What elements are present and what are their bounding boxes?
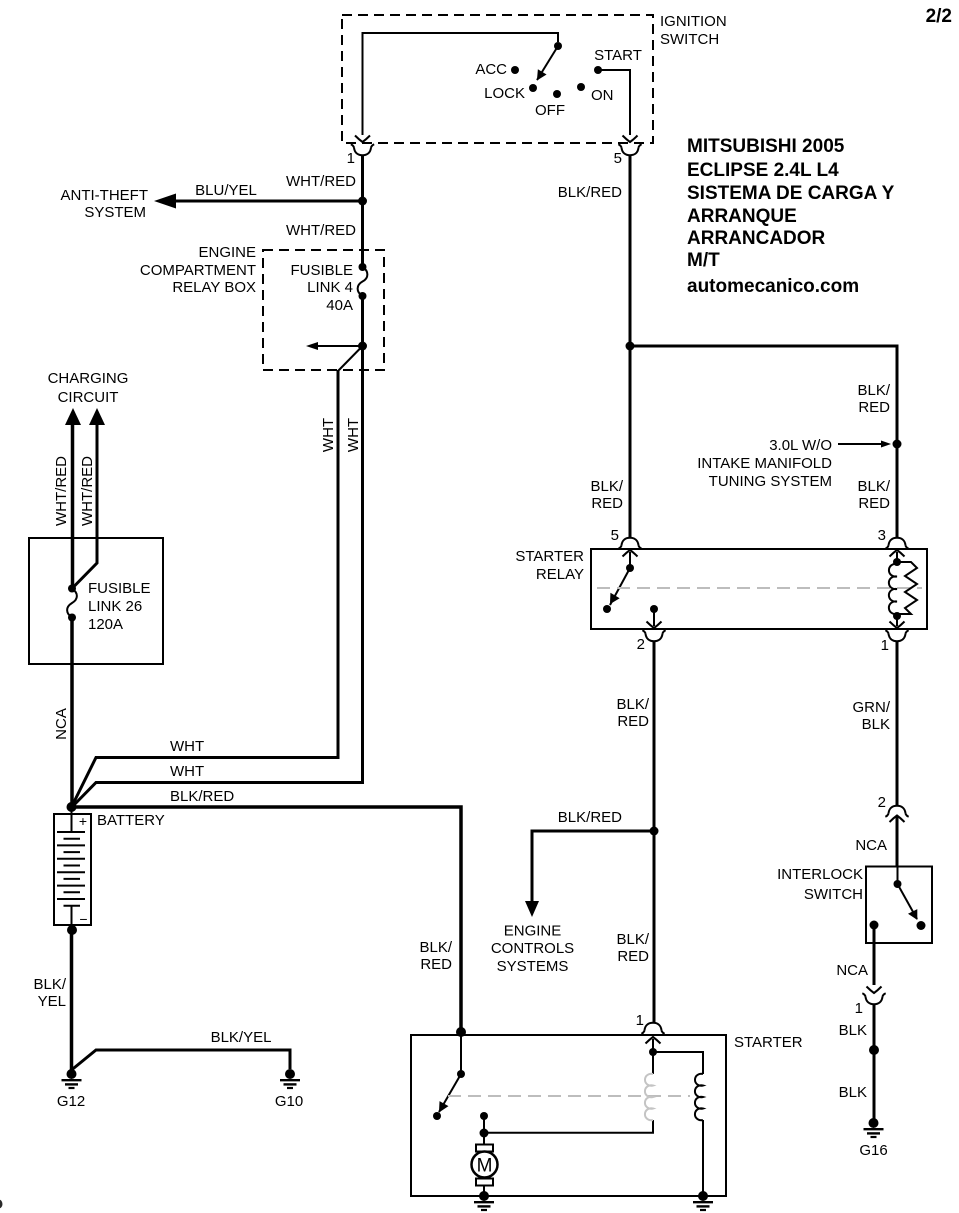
svg-text:ENGINE: ENGINE	[504, 923, 562, 940]
svg-text:OFF: OFF	[535, 102, 565, 119]
svg-text:INTAKE MANIFOLD: INTAKE MANIFOLD	[697, 455, 832, 472]
svg-text:WHT: WHT	[345, 418, 362, 452]
wire GRN/BLK pin1 down	[896, 642, 899, 806]
motor M	[472, 1145, 498, 1197]
svg-text:40A: 40A	[326, 297, 353, 314]
svg-text:2: 2	[878, 794, 886, 811]
pin 1 starter terminal arrow	[646, 1037, 661, 1052]
svg-text:ARRANQUE: ARRANQUE	[687, 206, 797, 227]
arrow 3.0L W/O	[838, 441, 891, 448]
svg-text:G12: G12	[57, 1093, 85, 1110]
svg-text:FUSIBLE: FUSIBLE	[290, 262, 353, 279]
wire START to pin5	[598, 70, 630, 135]
label ENGINE CONTROLS SYSTEMS	[491, 923, 574, 976]
pull-in coil (gray)	[645, 1052, 653, 1120]
svg-text:SYSTEM: SYSTEM	[84, 204, 146, 221]
page artifact bottom left	[0, 1199, 3, 1208]
svg-text:BLU/YEL: BLU/YEL	[195, 182, 257, 199]
svg-text:LINK 26: LINK 26	[88, 598, 142, 615]
svg-text:WHT: WHT	[320, 418, 337, 452]
wire NCA battery feed	[70, 618, 74, 808]
svg-text:BLK/: BLK/	[857, 382, 890, 399]
svg-text:BLK: BLK	[839, 1084, 867, 1101]
wire WHT right vertical	[72, 346, 363, 808]
svg-text:ACC: ACC	[475, 61, 507, 78]
wire NCA to interlock	[896, 816, 899, 867]
label ENGINE COMPARTMENT RELAY BOX	[140, 244, 256, 296]
svg-text:SWITCH: SWITCH	[660, 31, 719, 48]
interlock switch box	[866, 867, 932, 944]
label BLK/ RED feed	[419, 939, 452, 973]
node solenoid junction	[649, 1048, 657, 1056]
node relay box junction	[358, 342, 367, 351]
label BLK/ RED right above relay	[857, 478, 890, 512]
contact ON	[577, 83, 585, 91]
wire NCA below interlock	[873, 925, 876, 985]
pin 3 terminal arrow	[890, 550, 905, 562]
svg-text:BLK/RED: BLK/RED	[558, 809, 622, 826]
label BLK/ RED left above relay	[590, 478, 623, 512]
starter contact	[480, 1112, 488, 1120]
fusible link 4	[290, 250, 367, 314]
interlock switch	[870, 866, 926, 930]
wire branch to right	[630, 346, 897, 539]
svg-text:BLK/RED: BLK/RED	[558, 184, 622, 201]
node 3.0L junction	[893, 440, 902, 449]
svg-text:3: 3	[878, 527, 886, 544]
svg-text:automecanico.com: automecanico.com	[687, 276, 859, 297]
wire BLK/YEL battery to G12	[70, 930, 74, 1070]
wire BLK/RED pin5 down	[629, 156, 632, 346]
relay dashed link	[597, 587, 922, 589]
node engine controls junction	[650, 827, 659, 836]
ground starter motor	[474, 1191, 494, 1210]
arrow charging right	[89, 408, 105, 425]
svg-text:120A: 120A	[88, 616, 123, 633]
contact OFF	[553, 90, 561, 98]
wire pin5 to relay	[629, 346, 632, 539]
label INTERLOCK SWITCH	[777, 866, 863, 903]
svg-text:2: 2	[637, 636, 645, 653]
svg-text:ARRANCADOR: ARRANCADOR	[687, 228, 826, 249]
svg-text:BLK/RED: BLK/RED	[170, 788, 234, 805]
svg-text:RELAY BOX: RELAY BOX	[172, 279, 256, 296]
svg-text:ANTI-THEFT: ANTI-THEFT	[61, 187, 149, 204]
svg-text:WHT/RED: WHT/RED	[286, 173, 356, 190]
pin 1 connector	[347, 136, 375, 168]
svg-text:BLK/YEL: BLK/YEL	[211, 1029, 272, 1046]
label BLK/ YEL	[33, 976, 66, 1010]
svg-text:TUNING SYSTEM: TUNING SYSTEM	[709, 473, 832, 490]
svg-text:BLK/: BLK/	[33, 976, 66, 993]
pin 1 connector	[885, 630, 908, 641]
svg-text:SWITCH: SWITCH	[804, 886, 863, 903]
svg-text:INTERLOCK: INTERLOCK	[777, 866, 863, 883]
svg-text:2/2: 2/2	[926, 6, 952, 27]
pin 2 terminal	[647, 605, 662, 628]
svg-text:BLK/: BLK/	[616, 696, 649, 713]
label STARTER RELAY	[515, 548, 584, 583]
svg-text:1: 1	[881, 637, 889, 654]
svg-text:G10: G10	[275, 1093, 303, 1110]
ground G16	[864, 1118, 884, 1137]
ground G10	[280, 1069, 300, 1088]
svg-text:RED: RED	[617, 948, 649, 965]
svg-text:5: 5	[614, 150, 622, 167]
pin 3 connector	[885, 538, 908, 549]
label IGNITION SWITCH	[660, 13, 727, 48]
pin 1 starter connector	[641, 1023, 664, 1034]
svg-text:BLK/: BLK/	[857, 478, 890, 495]
svg-text:CONTROLS: CONTROLS	[491, 940, 574, 957]
svg-text:BLK/: BLK/	[419, 939, 452, 956]
node pin5 branch	[626, 342, 635, 351]
svg-text:BLK/: BLK/	[590, 478, 623, 495]
wire WHT left vertical	[72, 370, 339, 807]
ignition switch box	[342, 15, 653, 143]
wire BLK/RED pin2 down	[653, 642, 656, 1023]
ignition switch arm pivot	[554, 42, 562, 50]
svg-text:ECLIPSE 2.4L L4: ECLIPSE 2.4L L4	[687, 160, 839, 181]
node splice	[869, 1045, 879, 1055]
contact ACC	[511, 66, 519, 74]
node starter feed	[456, 1027, 466, 1037]
battery	[54, 807, 91, 930]
node anti-theft junction	[358, 197, 367, 206]
svg-text:CHARGING: CHARGING	[48, 370, 129, 387]
pin 5 connector	[614, 136, 642, 168]
svg-text:M/T: M/T	[687, 250, 720, 271]
fusible link 26	[67, 580, 150, 633]
svg-text:WHT/RED: WHT/RED	[53, 456, 70, 526]
wire WHT/RED charging right	[72, 424, 97, 589]
label GRN/ BLK	[853, 699, 891, 733]
svg-text:RED: RED	[617, 713, 649, 730]
pin 5 terminal arrow	[623, 550, 638, 568]
svg-text:ON: ON	[591, 87, 614, 104]
svg-text:SISTEMA DE CARGA Y: SISTEMA DE CARGA Y	[687, 183, 895, 204]
wire BLU/YEL to anti-theft	[172, 200, 363, 203]
starter dashed link	[448, 1095, 690, 1097]
svg-text:YEL: YEL	[38, 993, 66, 1010]
svg-text:1: 1	[855, 1000, 863, 1017]
wire WHT/RED pin1 down	[361, 156, 364, 250]
wire BLK/RED battery to starter	[72, 807, 462, 1032]
starter switch	[433, 1032, 465, 1120]
svg-text:BLK/: BLK/	[616, 931, 649, 948]
ignition switch arm	[537, 46, 558, 80]
svg-text:CIRCUIT: CIRCUIT	[58, 389, 119, 406]
wire BLK to G16	[873, 1050, 876, 1119]
relay switch arm	[610, 568, 630, 605]
svg-text:RED: RED	[591, 495, 623, 512]
connector 1 below interlock	[855, 987, 886, 1018]
svg-text:ENGINE: ENGINE	[198, 244, 256, 261]
svg-text:1: 1	[347, 150, 355, 167]
svg-text:RED: RED	[858, 399, 890, 416]
label 3.0L W/O INTAKE MANIFOLD TUNING SYSTEM	[697, 437, 832, 490]
svg-text:RED: RED	[420, 956, 452, 973]
svg-text:−: −	[79, 911, 87, 927]
svg-text:G16: G16	[859, 1142, 887, 1159]
hold-in coil	[653, 1052, 703, 1196]
fusible link 26 box	[29, 538, 163, 664]
svg-text:NCA: NCA	[836, 962, 868, 979]
svg-text:3.0L W/O: 3.0L W/O	[769, 437, 832, 454]
svg-text:LOCK: LOCK	[484, 85, 525, 102]
svg-text:FUSIBLE: FUSIBLE	[88, 580, 151, 597]
relay coil	[889, 558, 917, 620]
wire to engine controls	[532, 831, 654, 903]
wire contact to motor	[483, 1116, 485, 1145]
svg-text:COMPARTMENT: COMPARTMENT	[140, 262, 256, 279]
pin 2 connector	[642, 630, 665, 641]
arrow charging left	[65, 408, 81, 425]
svg-text:BLK: BLK	[862, 716, 890, 733]
node battery negative	[67, 925, 77, 935]
label BLK/ RED pin2	[616, 696, 649, 730]
engine compartment relay box	[263, 250, 384, 370]
node battery positive	[67, 802, 77, 812]
wire link4 to junction	[361, 296, 364, 346]
svg-text:MITSUBISHI 2005: MITSUBISHI 2005	[687, 136, 845, 157]
contact START	[594, 66, 602, 74]
svg-text:WHT: WHT	[170, 738, 204, 755]
svg-text:1: 1	[636, 1012, 644, 1029]
label BLK/ RED below junction	[616, 931, 649, 965]
svg-text:5: 5	[611, 527, 619, 544]
svg-text:+: +	[79, 813, 87, 829]
wire to pull-in coil	[484, 1120, 653, 1133]
svg-text:GRN/: GRN/	[853, 699, 891, 716]
svg-text:START: START	[594, 47, 642, 64]
svg-text:SYSTEMS: SYSTEMS	[497, 958, 569, 975]
ground G12	[62, 1069, 82, 1088]
wire diagonal to left WHT	[338, 346, 363, 371]
svg-text:WHT: WHT	[170, 763, 204, 780]
pin 5 connector	[618, 538, 641, 549]
relay contact	[603, 605, 611, 613]
svg-text:IGNITION: IGNITION	[660, 13, 727, 30]
label BLK/ RED right top	[857, 382, 890, 416]
wire ignition feed (pin1 internal)	[363, 33, 559, 135]
svg-text:WHT/RED: WHT/RED	[286, 222, 356, 239]
wire BLK	[873, 1004, 876, 1050]
svg-text:BATTERY: BATTERY	[97, 812, 165, 829]
pin 1 terminal	[890, 616, 905, 628]
svg-text:RELAY: RELAY	[536, 566, 584, 583]
starter relay box	[591, 549, 927, 629]
svg-text:RED: RED	[858, 495, 890, 512]
ground starter coil	[693, 1191, 713, 1210]
label CHARGING CIRCUIT	[48, 370, 129, 406]
svg-text:LINK 4: LINK 4	[307, 279, 353, 296]
svg-text:M: M	[477, 1156, 493, 1177]
relay switch pivot	[626, 564, 634, 572]
arrow stub left	[306, 342, 363, 350]
svg-text:NCA: NCA	[53, 708, 70, 740]
label ANTI-THEFT SYSTEM	[61, 187, 149, 221]
connector 2 interlock	[878, 794, 909, 822]
svg-text:WHT/RED: WHT/RED	[79, 456, 96, 526]
starter box	[411, 1035, 726, 1196]
contact LOCK	[529, 84, 537, 92]
svg-text:NCA: NCA	[855, 837, 887, 854]
node motor branch	[480, 1129, 489, 1138]
title block	[687, 136, 895, 297]
svg-text:BLK: BLK	[839, 1022, 867, 1039]
wire WHT/RED charging left	[71, 424, 75, 588]
svg-text:STARTER: STARTER	[515, 548, 584, 565]
wire BLK/YEL to G10	[72, 1050, 291, 1070]
svg-text:STARTER: STARTER	[734, 1034, 803, 1051]
